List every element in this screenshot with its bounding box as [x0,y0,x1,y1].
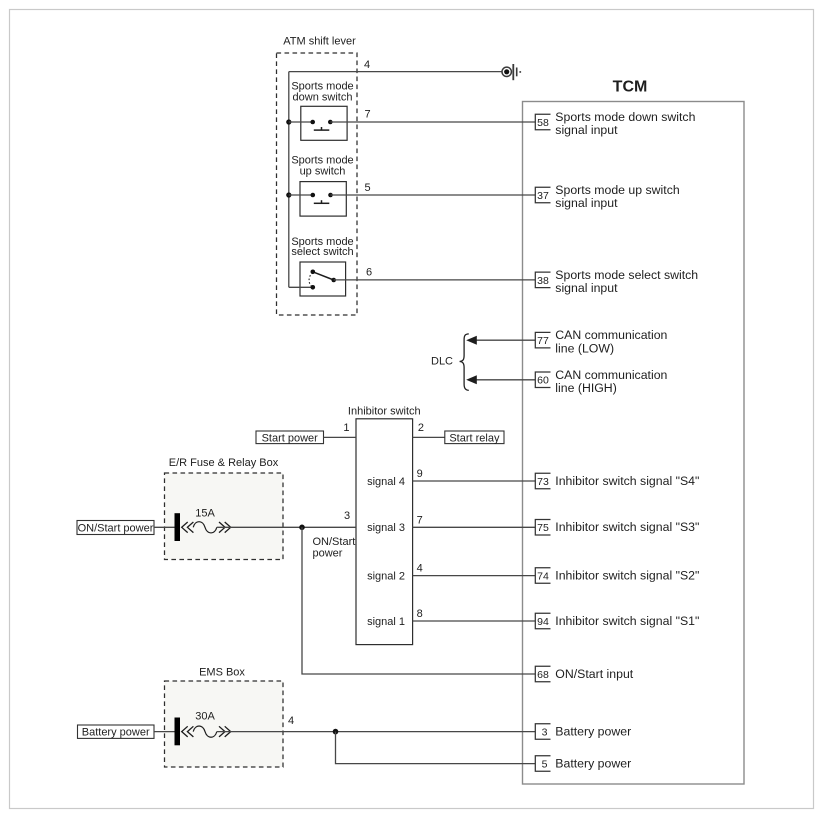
svg-text:line (LOW): line (LOW) [555,341,614,355]
pin 5 (battery) [535,756,550,772]
pin 37 [535,187,550,203]
EMS box [165,681,284,767]
wire start power to pin 1 [324,436,357,438]
svg-text:TCM: TCM [613,79,648,96]
svg-text:Sports mode: Sports mode [291,154,353,166]
svg-text:Battery power: Battery power [555,724,631,738]
svg-text:line (HIGH): line (HIGH) [555,381,617,395]
pin 74 [535,568,550,584]
ground G1 [502,64,521,80]
pin 94 [535,613,550,629]
svg-text:DLC: DLC [431,356,453,368]
pin 38 [535,272,550,288]
svg-text:Inhibitor switch signal "S4": Inhibitor switch signal "S4" [555,474,699,488]
pin 73 [535,473,550,489]
svg-text:37: 37 [537,190,549,202]
svg-text:signal input: signal input [555,196,618,210]
svg-text:CAN communication: CAN communication [555,368,667,382]
svg-text:15A: 15A [195,507,215,519]
pin 68 [535,666,550,682]
svg-text:Start relay: Start relay [449,432,500,444]
svg-text:Start power: Start power [262,432,319,444]
svg-text:3: 3 [542,727,548,739]
svg-text:7: 7 [417,514,423,526]
svg-text:Inhibitor switch signal "S2": Inhibitor switch signal "S2" [555,568,699,582]
svg-text:Inhibitor switch signal "S1": Inhibitor switch signal "S1" [555,614,699,628]
fuse F1 15A [175,507,231,541]
svg-text:up switch: up switch [300,166,346,178]
wire row 37 [331,194,536,196]
svg-text:4: 4 [364,59,370,71]
E/R fuse box [165,473,284,560]
pin 60 [535,372,550,388]
svg-text:73: 73 [537,476,549,488]
wire pin4 to ground [289,71,502,73]
TCM box U1 [523,102,745,785]
Sports mode down switch SW1 [286,81,353,141]
wire to fuse [154,731,175,733]
wire row 77 with arrow [466,336,535,345]
ATM shift lever box [277,53,358,315]
svg-text:EMS Box: EMS Box [199,666,245,678]
svg-text:power: power [313,548,343,560]
svg-text:signal input: signal input [555,123,618,137]
wire fuse to junction to pin 3 [217,731,536,733]
svg-text:signal 2: signal 2 [367,570,405,582]
svg-text:signal 1: signal 1 [367,616,405,628]
DLC brace [460,334,469,391]
pin 75 [535,520,550,536]
svg-text:Sports mode up switch: Sports mode up switch [555,183,680,197]
svg-text:30A: 30A [195,711,215,723]
svg-text:7: 7 [364,109,370,121]
svg-text:38: 38 [537,275,549,287]
fuse F2 30A [175,711,231,746]
svg-text:Sports mode select switch: Sports mode select switch [555,268,698,282]
svg-text:3: 3 [344,510,350,522]
wire row 58 [330,121,535,123]
svg-text:Battery power: Battery power [82,727,150,739]
svg-text:ON/Start: ON/Start [313,536,356,548]
svg-text:1: 1 [343,422,349,434]
wire row 75 [413,526,536,528]
wire row 94 [413,620,536,622]
wire row 74 [413,575,536,577]
svg-text:94: 94 [537,616,549,628]
svg-text:5: 5 [542,759,548,771]
Start power box [256,431,324,444]
svg-text:2: 2 [418,422,424,434]
wire to fuse [154,526,175,528]
ON/Start power box [77,521,154,535]
svg-text:Sports mode down switch: Sports mode down switch [555,110,695,124]
svg-text:75: 75 [537,522,549,534]
pin 3 (battery) [535,724,550,740]
wire junction down to row 5 [336,732,536,764]
svg-text:60: 60 [537,375,549,387]
svg-text:4: 4 [417,563,423,575]
wire row 73 [413,480,536,482]
svg-text:77: 77 [537,335,549,347]
svg-text:Inhibitor switch signal "S3": Inhibitor switch signal "S3" [555,520,699,534]
Sports mode select switch SW3 [289,236,354,296]
inhibitor switch box SW4 [356,419,413,645]
wire row 60 with arrow [466,375,535,384]
svg-text:signal 3: signal 3 [367,522,405,534]
svg-text:58: 58 [537,117,549,129]
svg-text:E/R Fuse & Relay Box: E/R Fuse & Relay Box [169,457,279,469]
svg-text:Inhibitor switch: Inhibitor switch [348,405,421,417]
bus wire (switch common) [288,72,290,288]
Sports mode up switch SW2 [286,154,353,216]
svg-text:74: 74 [537,571,549,583]
wire junction down to row 68 [302,527,535,674]
svg-text:Battery power: Battery power [555,756,631,770]
svg-text:ATM shift lever: ATM shift lever [283,36,356,48]
pin 77 [535,332,550,348]
svg-text:68: 68 [537,669,549,681]
svg-text:select switch: select switch [291,246,353,258]
svg-text:6: 6 [366,267,372,279]
wire row 38 [334,279,536,281]
svg-text:8: 8 [417,608,423,620]
svg-text:signal input: signal input [555,281,618,295]
Battery power box [78,725,155,739]
svg-text:9: 9 [417,468,423,480]
svg-text:ON/Start input: ON/Start input [555,667,633,681]
svg-text:4: 4 [288,715,294,727]
Start relay box [445,431,504,444]
wire fuse to junction to inhibitor pin 3 [217,526,356,528]
junction node ON/Start [299,525,305,531]
svg-text:ON/Start power: ON/Start power [78,523,154,535]
svg-text:signal 4: signal 4 [367,476,405,488]
svg-text:CAN communication: CAN communication [555,328,667,342]
svg-text:5: 5 [364,182,370,194]
svg-text:down switch: down switch [293,92,353,104]
junction node battery [333,729,339,735]
pin 58 [535,114,550,130]
wire pin 2 to start relay [413,436,445,438]
